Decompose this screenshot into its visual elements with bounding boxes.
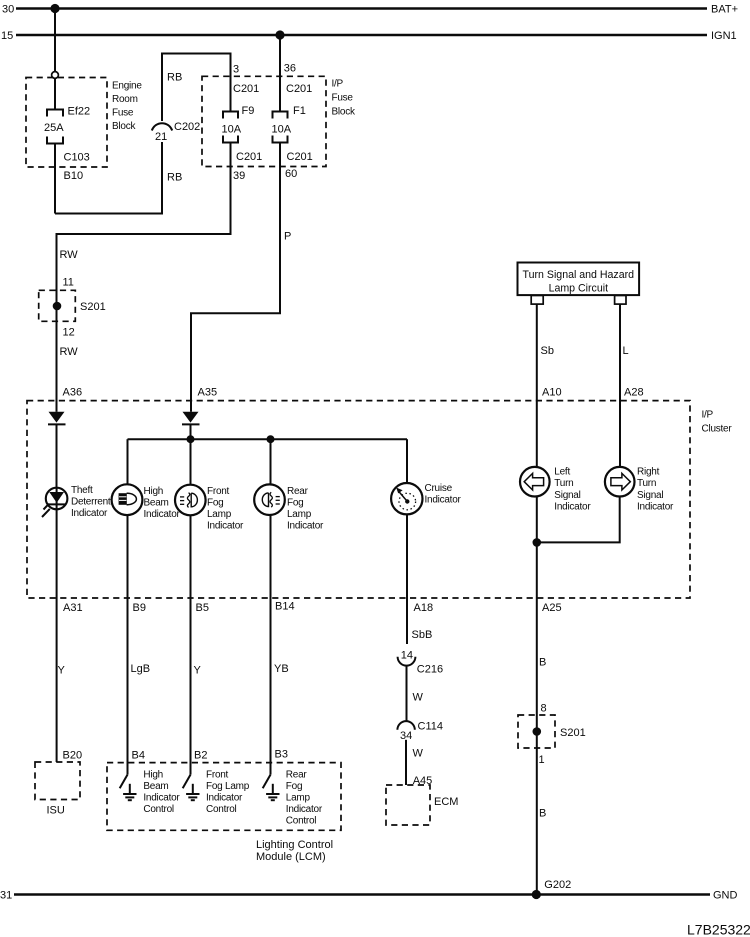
svg-text:ISU: ISU (47, 804, 65, 816)
svg-text:G202: G202 (544, 879, 571, 891)
svg-text:A35: A35 (198, 386, 218, 398)
svg-text:12: 12 (63, 327, 75, 339)
svg-text:Deterrent: Deterrent (71, 496, 111, 507)
svg-text:Fog: Fog (286, 781, 302, 792)
svg-text:Indicator: Indicator (425, 495, 462, 506)
svg-text:C201: C201 (236, 151, 262, 163)
svg-text:RW: RW (60, 249, 79, 261)
svg-text:Cluster: Cluster (702, 424, 733, 435)
svg-text:11: 11 (63, 277, 74, 289)
svg-text:Control: Control (206, 804, 237, 815)
svg-text:SbB: SbB (412, 629, 433, 641)
fuse F1 10A (272, 105, 306, 143)
svg-text:S201: S201 (80, 301, 106, 313)
pin 60 C201 (285, 151, 313, 180)
svg-text:High: High (144, 486, 164, 497)
svg-text:Beam: Beam (143, 781, 168, 792)
wire W from C114 to ECM A45 (406, 740, 432, 787)
svg-text:21: 21 (155, 131, 167, 143)
svg-text:Left: Left (554, 467, 570, 478)
wire B10 corner to C202 (55, 142, 162, 214)
theft deterrent indicator LED (42, 485, 111, 519)
svg-text:3: 3 (233, 64, 239, 76)
svg-text:F1: F1 (293, 105, 306, 117)
svg-text:Y: Y (194, 664, 202, 676)
svg-text:BAT+: BAT+ (711, 4, 738, 16)
wire diode A35 to indicator bus (190, 424, 192, 439)
svg-text:F9: F9 (242, 105, 255, 117)
rear fog lamp indicator (254, 484, 324, 531)
svg-text:Y: Y (58, 664, 66, 676)
splice S201 (8/1) (518, 715, 586, 748)
svg-text:B10: B10 (64, 170, 84, 182)
wire diode A36 to theft LED (56, 424, 58, 488)
svg-text:Indicator: Indicator (143, 793, 180, 804)
svg-text:Turn: Turn (554, 478, 573, 489)
wire high beam drop (127, 439, 129, 484)
svg-text:RB: RB (167, 72, 182, 84)
svg-text:A10: A10 (542, 386, 562, 398)
high beam indicator control switch (120, 769, 181, 815)
Lighting Control Module LCM (dashed box) (107, 763, 341, 863)
svg-text:RW: RW (60, 346, 79, 358)
wire into fuse Ef22 (54, 78, 56, 109)
svg-text:W: W (413, 747, 424, 759)
junction on bus 30 (50, 4, 59, 13)
svg-text:B3: B3 (275, 748, 288, 760)
connector C114 pin 34 (397, 720, 443, 742)
svg-text:1: 1 (539, 754, 545, 766)
left turn signal indicator (520, 467, 591, 513)
svg-text:Engine: Engine (112, 81, 142, 92)
indicator bus wire (128, 438, 408, 440)
junction A35 on bus (187, 435, 195, 443)
svg-text:25A: 25A (44, 122, 64, 134)
svg-text:A31: A31 (63, 602, 83, 614)
fuse F9 10A (222, 105, 255, 143)
svg-text:High: High (143, 769, 163, 780)
svg-text:Control: Control (143, 804, 174, 815)
diode at A35 (182, 412, 200, 425)
svg-text:Indicator: Indicator (71, 508, 108, 519)
svg-text:Turn: Turn (637, 478, 656, 489)
wire high beam to LCM B4 (128, 515, 151, 775)
connector pin square right (615, 296, 626, 305)
wire from fuse Ef22 down, label C103 B10 (55, 144, 90, 214)
pin 39 C201 (233, 151, 262, 182)
connector C216 pin 14 (398, 649, 443, 675)
ground junction G202 (532, 890, 541, 899)
svg-text:8: 8 (541, 702, 547, 714)
svg-text:I/P: I/P (332, 79, 344, 90)
svg-text:I/P: I/P (702, 409, 714, 420)
svg-text:Module (LCM): Module (LCM) (256, 851, 326, 863)
svg-text:30: 30 (2, 4, 14, 16)
svg-text:A18: A18 (414, 602, 434, 614)
svg-text:Fog: Fog (287, 497, 303, 508)
svg-text:Indicator: Indicator (207, 520, 244, 531)
svg-text:Front: Front (206, 769, 229, 780)
svg-text:B9: B9 (133, 602, 146, 614)
svg-text:60: 60 (285, 168, 297, 180)
ECM (dashed box) (386, 785, 458, 825)
svg-text:Indicator: Indicator (637, 501, 674, 512)
svg-text:Fuse: Fuse (112, 108, 134, 119)
svg-text:Rear: Rear (287, 486, 309, 497)
wire RB up from C202 and bridge to pin 3 (162, 54, 231, 184)
svg-text:GND: GND (713, 890, 738, 902)
svg-text:P: P (284, 230, 291, 242)
front fog lamp indicator control switch (183, 769, 250, 815)
wire rear fog drop (270, 439, 272, 484)
svg-text:15: 15 (1, 30, 13, 42)
wire pin39 down and left to RW column (57, 143, 231, 307)
svg-text:10A: 10A (272, 123, 292, 135)
wire left turn down to A25 (536, 497, 538, 599)
svg-text:Indicator: Indicator (286, 804, 323, 815)
rear fog lamp indicator control switch (263, 769, 323, 826)
svg-text:Right: Right (637, 467, 660, 478)
svg-text:Fog: Fog (207, 497, 223, 508)
svg-text:IGN1: IGN1 (711, 30, 737, 42)
svg-text:Signal: Signal (554, 490, 580, 501)
svg-text:Lamp: Lamp (286, 793, 311, 804)
svg-text:A28: A28 (624, 386, 644, 398)
junction rear fog on bus (267, 435, 275, 443)
svg-text:L7B25322: L7B25322 (687, 922, 750, 937)
svg-text:Lamp: Lamp (207, 509, 232, 520)
right turn signal indicator (605, 467, 674, 513)
fuse Ef22 25A (44, 106, 90, 144)
bus 31 GND (0, 890, 738, 902)
svg-text:W: W (413, 692, 424, 704)
svg-text:B2: B2 (194, 749, 207, 761)
Engine Room Fuse Block (dashed box) (26, 78, 142, 168)
wire front fog drop (190, 439, 192, 485)
wire front fog to LCM B2 (191, 515, 209, 774)
svg-text:14: 14 (401, 649, 413, 661)
svg-text:36: 36 (284, 63, 296, 75)
svg-text:C103: C103 (64, 152, 90, 164)
svg-text:A25: A25 (542, 602, 562, 614)
svg-text:Fog Lamp: Fog Lamp (206, 781, 250, 792)
wire from bus 30 to Engine Room Fuse Block (54, 9, 56, 72)
svg-text:Sb: Sb (541, 345, 554, 357)
diode at A36 (48, 412, 66, 425)
svg-text:Indicator: Indicator (144, 509, 181, 520)
svg-text:S201: S201 (560, 727, 586, 739)
ISU (dashed box) (35, 762, 80, 816)
svg-text:B5: B5 (196, 602, 209, 614)
svg-text:Indicator: Indicator (287, 520, 324, 531)
svg-text:B4: B4 (132, 749, 145, 761)
wire cruise drop (406, 439, 408, 483)
I/P Cluster (dashed box) (27, 401, 732, 598)
svg-text:B14: B14 (275, 600, 295, 612)
svg-text:Fuse: Fuse (332, 93, 354, 104)
wire RW below S201 (57, 306, 83, 412)
wire L to right turn indicator (620, 304, 644, 467)
junction of turn indicator wires (533, 538, 542, 547)
svg-text:Beam: Beam (144, 497, 169, 508)
svg-text:C114: C114 (418, 720, 443, 732)
wire A25 to S201 pin 8 (537, 598, 562, 732)
svg-text:Ef22: Ef22 (68, 106, 91, 118)
svg-text:Lighting Control: Lighting Control (256, 839, 333, 851)
front fog lamp indicator (175, 485, 244, 532)
svg-text:Room: Room (112, 94, 138, 105)
Turn Signal and Hazard Lamp Circuit box (518, 263, 640, 296)
svg-text:LgB: LgB (131, 663, 151, 675)
svg-text:A36: A36 (63, 386, 83, 398)
wire rear fog to LCM B3 (271, 515, 295, 775)
connector C202 pin 21 (152, 121, 200, 143)
svg-text:Control: Control (286, 816, 317, 827)
svg-text:Turn Signal and Hazard: Turn Signal and Hazard (523, 269, 635, 281)
junction on bus 15 (275, 30, 284, 39)
splice S201 (11/12) (39, 290, 106, 321)
svg-text:Lamp Circuit: Lamp Circuit (549, 283, 609, 295)
pin 36 C201 (284, 63, 312, 95)
svg-text:B: B (539, 807, 546, 819)
svg-text:B20: B20 (63, 749, 83, 761)
wire RW labels (60, 249, 79, 289)
wire Sb to left turn indicator (537, 304, 562, 467)
svg-text:ECM: ECM (434, 796, 458, 808)
svg-text:RB: RB (167, 171, 182, 183)
wire cruise to C216 (407, 514, 433, 644)
svg-text:C202: C202 (174, 121, 200, 133)
connector pin square left (531, 296, 543, 305)
svg-text:Indicator: Indicator (206, 793, 243, 804)
svg-text:C201: C201 (287, 151, 313, 163)
I/P Fuse Block (dashed box) (202, 76, 356, 166)
svg-text:39: 39 (233, 170, 245, 182)
svg-text:Front: Front (207, 486, 230, 497)
svg-text:Theft: Theft (71, 485, 93, 496)
svg-text:10A: 10A (222, 123, 242, 135)
svg-text:Indicator: Indicator (554, 501, 591, 512)
svg-text:C201: C201 (286, 83, 312, 95)
cruise indicator gauge (391, 483, 461, 515)
wire W between C216 and C114 (407, 666, 424, 722)
ground at rear fog switch (266, 784, 279, 800)
svg-text:YB: YB (274, 663, 289, 675)
svg-text:C201: C201 (233, 83, 259, 95)
high beam indicator lamp (112, 484, 181, 519)
wire P from F1 down to A35 (191, 143, 291, 412)
wire right turn join (537, 497, 620, 543)
pin 3 C201 (233, 64, 259, 95)
wire theft to ISU (57, 509, 83, 762)
terminal circle at fuse block boundary (52, 72, 59, 79)
ground at front fog switch (186, 784, 199, 800)
svg-text:B: B (539, 656, 546, 668)
svg-text:Rear: Rear (286, 769, 308, 780)
ground at high beam switch (123, 784, 136, 800)
bus 15 IGN1 (1, 30, 737, 42)
bus 30 BAT+ (2, 4, 738, 16)
svg-text:Cruise: Cruise (425, 483, 453, 494)
svg-text:L: L (623, 345, 629, 357)
wire B from S201 to G202 (537, 732, 571, 895)
svg-text:Block: Block (112, 121, 136, 132)
svg-text:Signal: Signal (637, 490, 663, 501)
svg-text:Block: Block (332, 107, 356, 118)
svg-text:C216: C216 (417, 663, 443, 675)
svg-text:31: 31 (0, 890, 12, 902)
svg-text:Lamp: Lamp (287, 509, 312, 520)
wire bus15 to fuse F1 (279, 35, 281, 112)
